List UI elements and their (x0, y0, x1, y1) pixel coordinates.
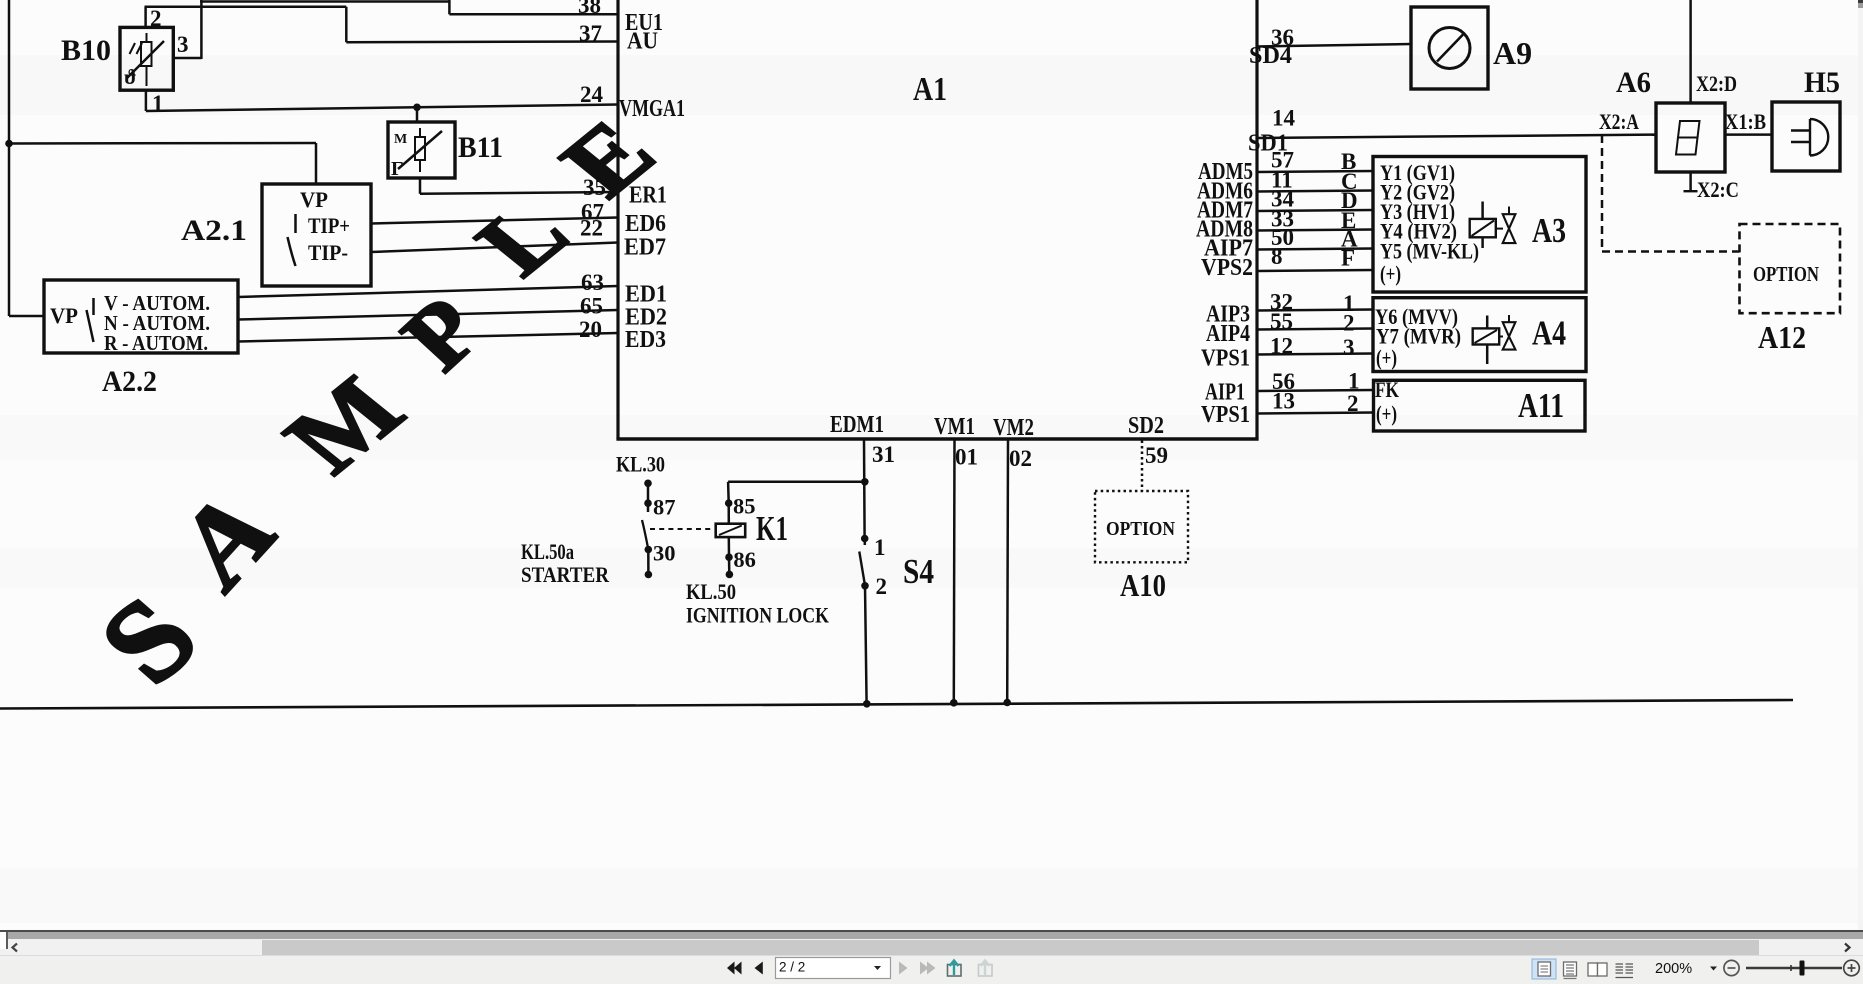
svg-text:22: 22 (580, 216, 603, 241)
svg-text:VM1: VM1 (934, 413, 975, 440)
svg-text:X2:C: X2:C (1697, 177, 1739, 202)
svg-text:EDM1: EDM1 (830, 411, 884, 438)
svg-text:S: S (73, 574, 224, 707)
svg-text:X2:A: X2:A (1599, 109, 1640, 134)
svg-text:A3: A3 (1532, 211, 1566, 250)
svg-text:R - AUTOM.: R - AUTOM. (104, 331, 208, 355)
svg-text:F: F (1341, 246, 1355, 271)
svg-text:1: 1 (874, 535, 886, 560)
svg-text:59: 59 (1145, 443, 1168, 468)
svg-text:A: A (158, 464, 295, 614)
svg-text:K1: K1 (756, 509, 788, 548)
svg-text:TIP-: TIP- (308, 240, 348, 265)
svg-text:M: M (262, 358, 427, 491)
svg-text:85: 85 (733, 494, 756, 519)
svg-text:B11: B11 (458, 131, 503, 164)
svg-text:02: 02 (1009, 446, 1032, 471)
svg-text:H5: H5 (1804, 66, 1840, 99)
svg-text:P: P (381, 278, 502, 389)
svg-text:01: 01 (955, 445, 978, 470)
svg-text:ED3: ED3 (625, 326, 666, 353)
svg-text:A4: A4 (1532, 314, 1566, 353)
svg-text:63: 63 (581, 270, 604, 295)
svg-text:FK: FK (1375, 377, 1399, 402)
svg-text:KL.30: KL.30 (616, 452, 665, 477)
svg-text:A10: A10 (1120, 567, 1166, 603)
svg-text:(+): (+) (1376, 401, 1397, 426)
svg-text:AIP4: AIP4 (1206, 320, 1250, 347)
svg-text:VP: VP (300, 187, 328, 212)
svg-text:2: 2 (150, 6, 162, 31)
svg-text:TIP+: TIP+ (308, 213, 350, 238)
svg-text:VPS1: VPS1 (1201, 345, 1250, 372)
svg-text:12: 12 (1270, 334, 1293, 359)
svg-text:SD4: SD4 (1249, 42, 1292, 69)
svg-text:KL.50: KL.50 (686, 579, 736, 604)
svg-text:(+): (+) (1380, 261, 1401, 286)
svg-text:A9: A9 (1493, 35, 1532, 71)
svg-text:X1:B: X1:B (1725, 109, 1766, 134)
svg-text:20: 20 (579, 317, 602, 342)
svg-text:S4: S4 (903, 552, 934, 591)
svg-text:Y5 (MV-KL): Y5 (MV-KL) (1380, 239, 1479, 264)
svg-text:SD2: SD2 (1128, 412, 1164, 439)
svg-text:55: 55 (1270, 309, 1293, 334)
svg-text:24: 24 (580, 82, 604, 107)
svg-text:A2.1: A2.1 (181, 214, 247, 247)
svg-text:200%: 200% (1655, 961, 1692, 977)
svg-text:OPTION: OPTION (1753, 262, 1819, 286)
svg-text:OPTION: OPTION (1106, 518, 1175, 540)
svg-text:86: 86 (733, 547, 756, 572)
svg-text:38: 38 (578, 0, 601, 18)
svg-text:VMGA1: VMGA1 (619, 95, 685, 122)
svg-text:65: 65 (580, 294, 603, 319)
svg-text:2: 2 (876, 574, 888, 599)
svg-text:(+): (+) (1376, 345, 1397, 370)
svg-text:A11: A11 (1518, 386, 1564, 425)
svg-text:VP: VP (50, 303, 78, 328)
svg-text:1: 1 (1348, 369, 1360, 394)
svg-text:3: 3 (1343, 335, 1355, 360)
svg-text:2 / 2: 2 / 2 (779, 960, 805, 975)
svg-text:A2.2: A2.2 (102, 365, 157, 398)
svg-text:ER1: ER1 (629, 182, 667, 209)
svg-text:31: 31 (872, 442, 895, 467)
svg-text:IGNITION LOCK: IGNITION LOCK (686, 603, 829, 628)
svg-text:ED7: ED7 (624, 234, 666, 261)
svg-text:1: 1 (152, 91, 164, 116)
svg-text:M: M (394, 132, 407, 147)
svg-text:37: 37 (579, 21, 602, 46)
svg-text:STARTER: STARTER (521, 562, 610, 587)
svg-text:KL.50a: KL.50a (521, 539, 574, 564)
svg-text:87: 87 (653, 495, 676, 520)
svg-text:X2:D: X2:D (1696, 71, 1737, 96)
svg-text:VPS1: VPS1 (1201, 401, 1250, 428)
svg-text:14: 14 (1272, 106, 1296, 131)
svg-text:ϑ: ϑ (124, 65, 137, 89)
svg-text:8: 8 (1271, 244, 1283, 269)
svg-text:35: 35 (583, 175, 606, 200)
svg-text:A1: A1 (913, 71, 947, 108)
svg-text:A12: A12 (1758, 319, 1806, 355)
svg-text:L: L (455, 184, 591, 294)
svg-text:AU: AU (627, 28, 658, 55)
svg-text:Γ: Γ (391, 158, 404, 180)
svg-text:VM2: VM2 (993, 414, 1034, 441)
svg-text:13: 13 (1272, 389, 1295, 414)
svg-text:B10: B10 (61, 34, 111, 67)
svg-text:A6: A6 (1616, 66, 1651, 99)
svg-text:2: 2 (1347, 391, 1359, 416)
svg-text:2: 2 (1343, 311, 1355, 336)
svg-text:VPS2: VPS2 (1201, 254, 1253, 281)
svg-text:3: 3 (177, 32, 189, 57)
svg-text:30: 30 (653, 541, 676, 566)
